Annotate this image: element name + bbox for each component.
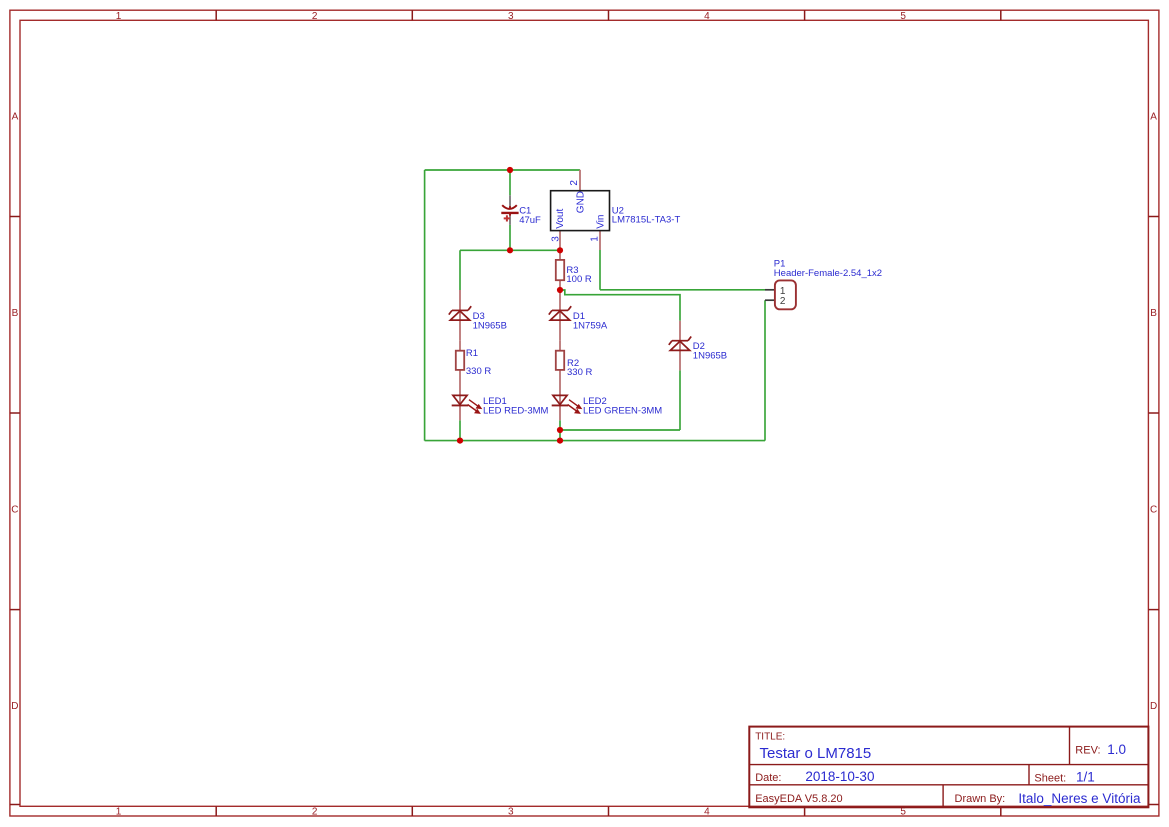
svg-text:5: 5: [900, 11, 906, 22]
svg-text:1: 1: [589, 236, 600, 242]
svg-text:2: 2: [312, 11, 318, 22]
svg-text:2: 2: [780, 296, 786, 307]
svg-text:Date:: Date:: [755, 772, 781, 784]
svg-text:LM7815L-TA3-T: LM7815L-TA3-T: [612, 214, 681, 225]
svg-text:3: 3: [508, 807, 514, 818]
svg-text:100 R: 100 R: [566, 274, 591, 285]
svg-text:4: 4: [704, 11, 710, 22]
svg-text:Testar o LM7815: Testar o LM7815: [760, 745, 872, 762]
svg-text:Vout: Vout: [555, 209, 566, 229]
svg-text:GND: GND: [576, 191, 587, 213]
svg-text:3: 3: [550, 236, 561, 242]
svg-text:47uF: 47uF: [519, 215, 541, 226]
svg-text:Header-Female-2.54_1x2: Header-Female-2.54_1x2: [774, 268, 882, 279]
svg-text:2: 2: [569, 180, 580, 186]
svg-text:Sheet:: Sheet:: [1034, 772, 1066, 784]
svg-text:A: A: [12, 112, 19, 123]
svg-text:330 R: 330 R: [466, 366, 491, 377]
svg-text:C: C: [11, 505, 18, 516]
svg-text:1/1: 1/1: [1076, 769, 1095, 784]
svg-text:C: C: [1150, 505, 1157, 516]
svg-text:EasyEDA V5.8.20: EasyEDA V5.8.20: [755, 793, 842, 805]
svg-text:1: 1: [116, 807, 122, 818]
svg-text:1N965B: 1N965B: [693, 351, 727, 362]
svg-text:2: 2: [312, 807, 318, 818]
svg-text:4: 4: [704, 807, 710, 818]
svg-text:REV:: REV:: [1075, 744, 1100, 756]
svg-text:R1: R1: [466, 348, 478, 359]
svg-text:Drawn By:: Drawn By:: [955, 793, 1006, 805]
svg-text:TITLE:: TITLE:: [755, 731, 785, 742]
svg-text:A: A: [1150, 112, 1157, 123]
svg-text:B: B: [12, 308, 19, 319]
svg-text:1N759A: 1N759A: [573, 321, 608, 332]
svg-text:D: D: [11, 701, 18, 712]
svg-text:1N965B: 1N965B: [473, 321, 507, 332]
svg-text:2018-10-30: 2018-10-30: [805, 769, 874, 784]
svg-text:LED RED-3MM: LED RED-3MM: [483, 406, 549, 417]
svg-text:330 R: 330 R: [567, 367, 592, 378]
svg-text:1.0: 1.0: [1107, 742, 1126, 757]
svg-text:D: D: [1150, 701, 1157, 712]
svg-text:B: B: [1150, 308, 1157, 319]
svg-text:3: 3: [508, 11, 514, 22]
svg-text:Italo_Neres e Vitória: Italo_Neres e Vitória: [1018, 791, 1141, 806]
svg-text:LED GREEN-3MM: LED GREEN-3MM: [583, 406, 662, 417]
svg-text:Vin: Vin: [595, 215, 606, 229]
svg-text:1: 1: [116, 11, 122, 22]
